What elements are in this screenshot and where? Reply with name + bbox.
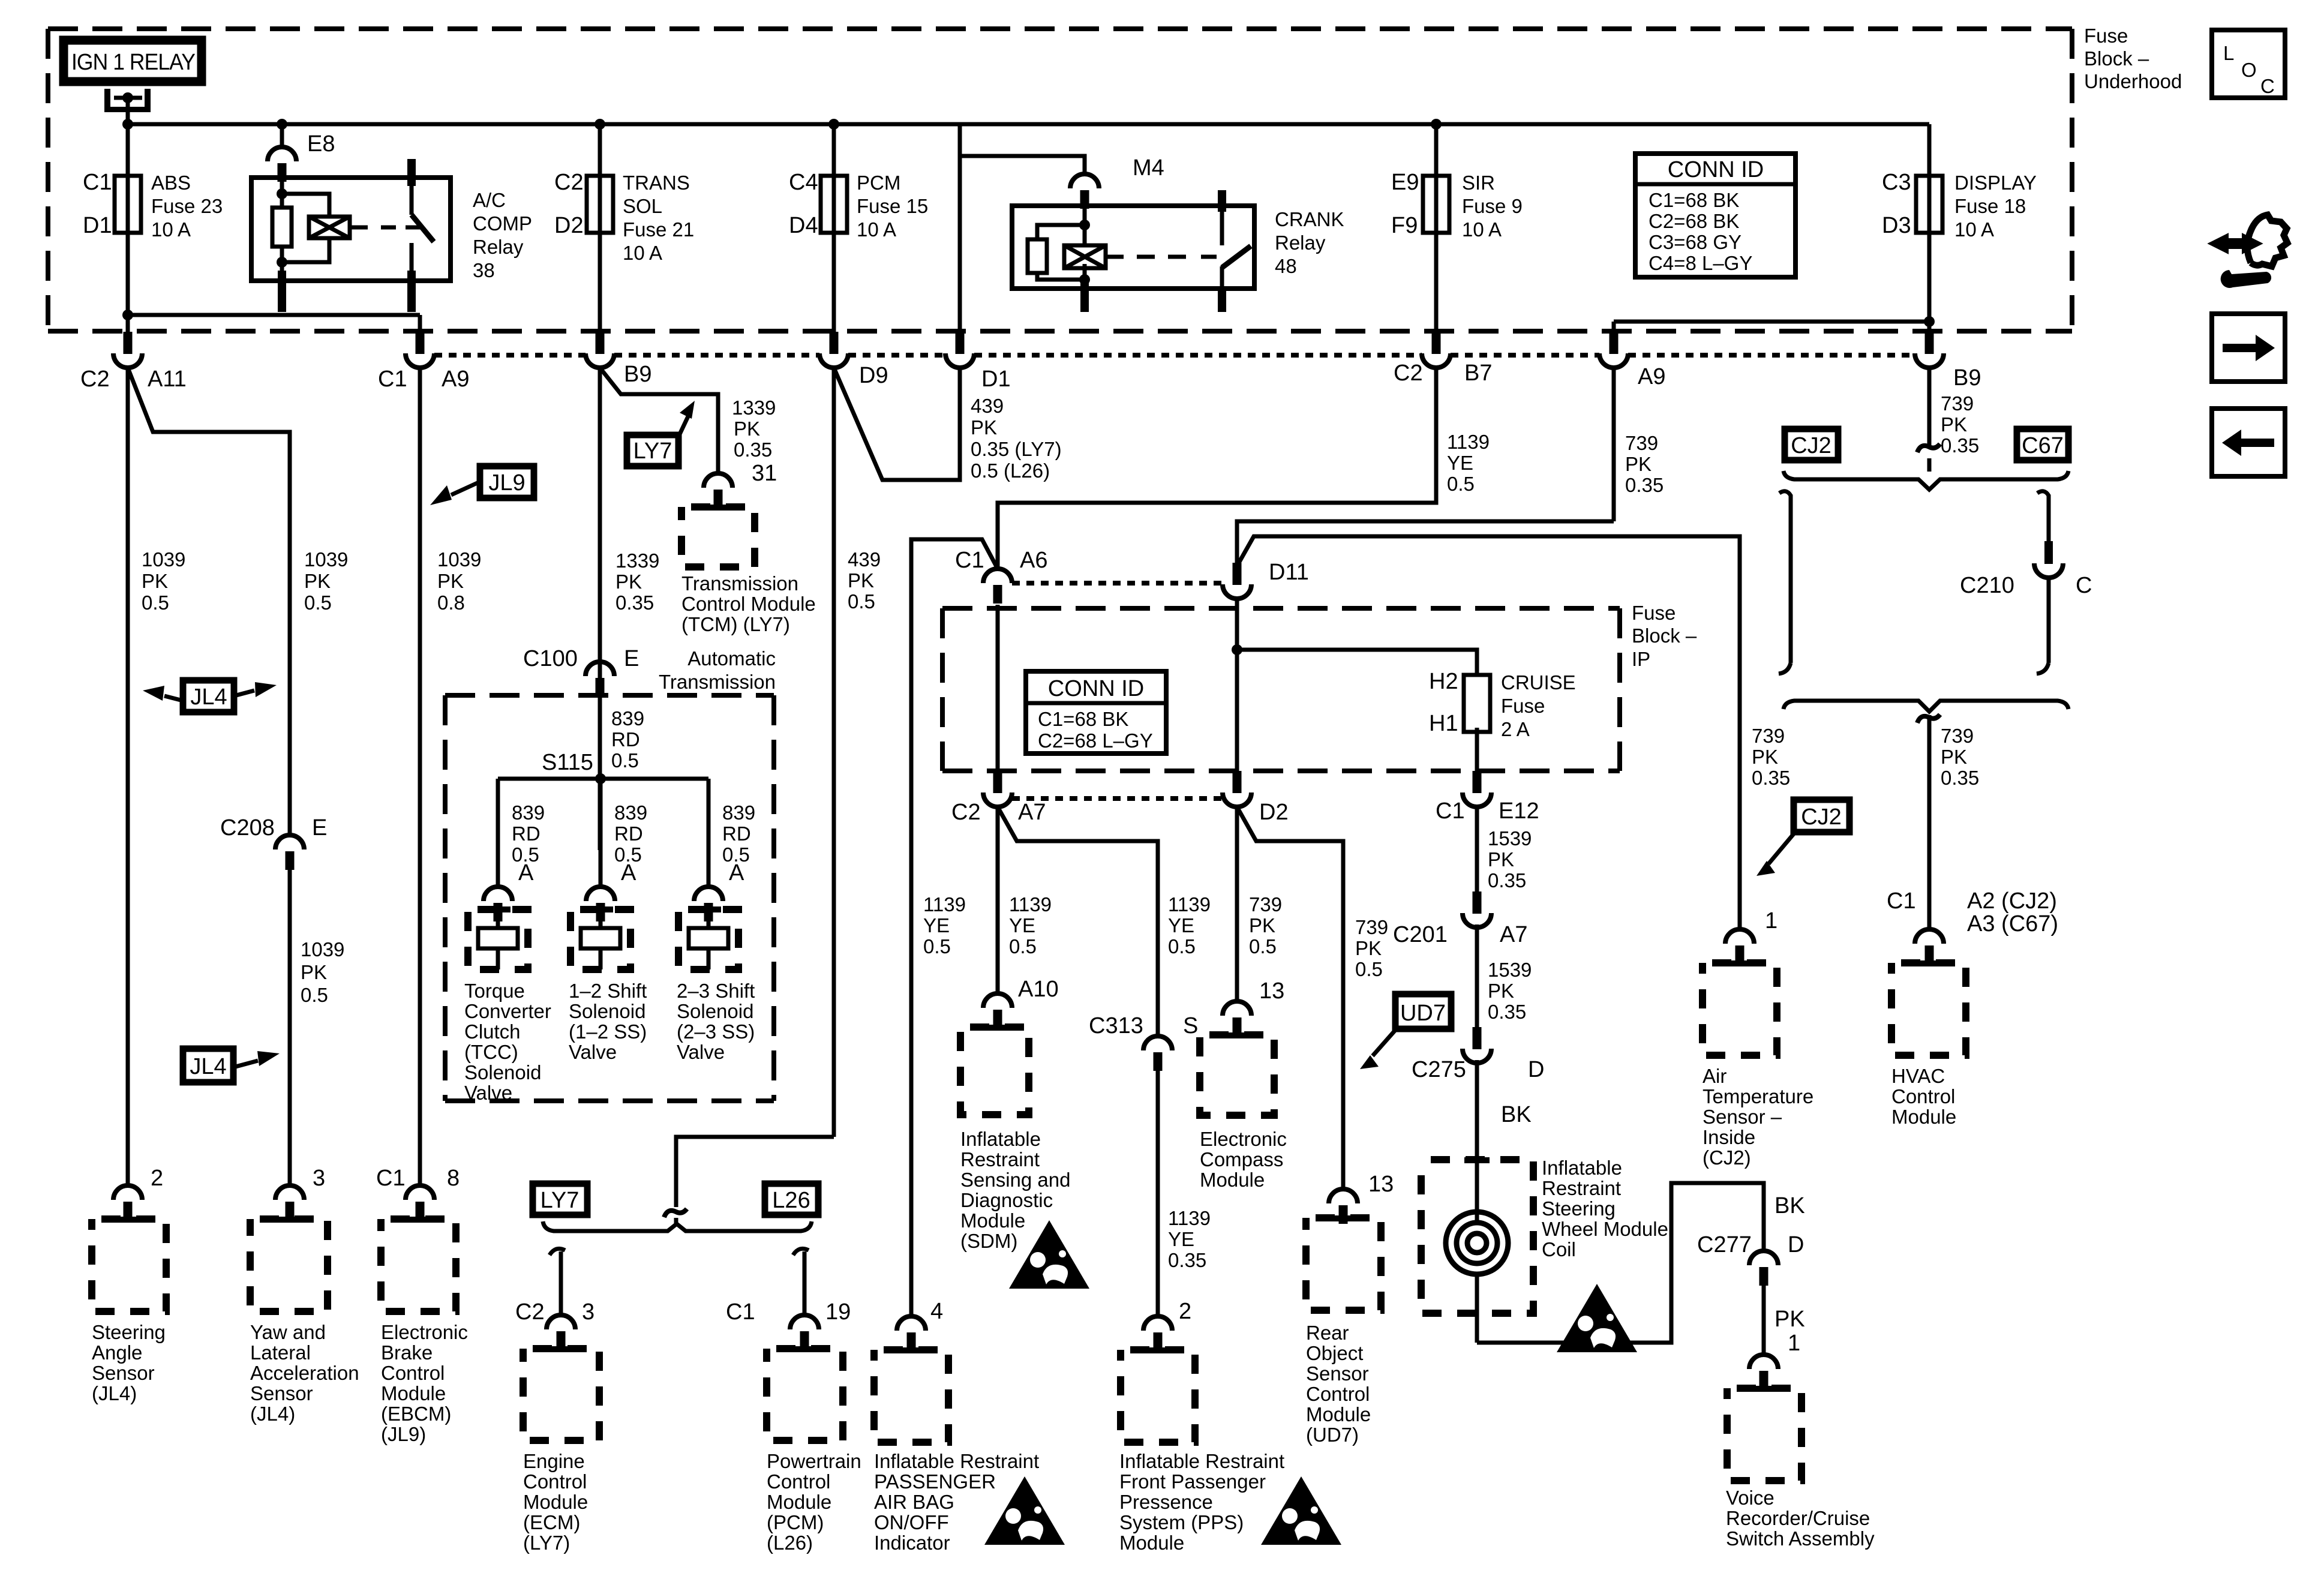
svg-text:C275: C275 — [1412, 1057, 1466, 1082]
svg-text:O: O — [2241, 59, 2257, 81]
svg-text:10 A: 10 A — [151, 218, 191, 241]
svg-text:(CJ2): (CJ2) — [1703, 1146, 1751, 1169]
svg-text:(SDM): (SDM) — [960, 1230, 1017, 1252]
svg-text:0.35 (LY7): 0.35 (LY7) — [971, 438, 1062, 460]
svg-text:Recorder/Cruise: Recorder/Cruise — [1726, 1507, 1870, 1529]
svg-text:PK: PK — [1625, 453, 1652, 475]
svg-text:PASSENGER: PASSENGER — [874, 1470, 996, 1493]
svg-text:LY7: LY7 — [633, 439, 672, 464]
svg-text:Module: Module — [767, 1491, 831, 1513]
svg-text:TRANS: TRANS — [623, 172, 690, 194]
svg-text:48: 48 — [1275, 255, 1297, 277]
svg-text:L: L — [2223, 42, 2234, 64]
svg-text:CJ2: CJ2 — [1791, 433, 1831, 458]
svg-text:C1=68 BK: C1=68 BK — [1649, 189, 1739, 211]
svg-text:Brake: Brake — [381, 1341, 433, 1364]
svg-text:C1: C1 — [376, 1166, 406, 1191]
svg-text:1: 1 — [1765, 908, 1777, 933]
svg-text:19: 19 — [825, 1299, 851, 1325]
svg-text:A7: A7 — [1500, 922, 1527, 947]
svg-text:739: 739 — [1249, 893, 1282, 915]
svg-text:C2: C2 — [1394, 361, 1423, 386]
svg-text:BK: BK — [1774, 1193, 1805, 1218]
svg-text:PK: PK — [615, 571, 642, 593]
svg-text:839: 839 — [614, 801, 647, 824]
svg-text:Solenoid: Solenoid — [569, 1000, 645, 1022]
svg-text:0.5: 0.5 — [1447, 473, 1475, 495]
svg-text:PK: PK — [1488, 980, 1514, 1002]
svg-text:A9: A9 — [442, 367, 469, 392]
svg-text:PK: PK — [1941, 746, 1967, 768]
svg-text:Sensor: Sensor — [1306, 1362, 1369, 1385]
svg-text:C1=68 BK: C1=68 BK — [1038, 708, 1128, 730]
svg-text:C1: C1 — [378, 367, 407, 392]
svg-text:2 A: 2 A — [1501, 718, 1530, 740]
svg-text:Fuse 18: Fuse 18 — [1954, 195, 2026, 217]
svg-text:1039: 1039 — [142, 548, 185, 571]
svg-text:Sensor: Sensor — [92, 1362, 155, 1384]
svg-text:Electronic: Electronic — [381, 1321, 468, 1343]
svg-text:AIR BAG: AIR BAG — [874, 1491, 954, 1513]
svg-text:0.8: 0.8 — [437, 592, 465, 614]
svg-text:PK: PK — [1355, 937, 1382, 959]
svg-text:E: E — [312, 815, 327, 840]
svg-text:1339: 1339 — [732, 397, 776, 419]
svg-text:Torque: Torque — [464, 980, 525, 1002]
svg-text:C1: C1 — [83, 170, 112, 195]
svg-text:D2: D2 — [554, 213, 584, 238]
svg-text:1139: 1139 — [1009, 893, 1052, 915]
svg-text:Sensing and: Sensing and — [960, 1169, 1070, 1191]
svg-text:0.35: 0.35 — [1625, 474, 1664, 496]
svg-text:CRUISE: CRUISE — [1501, 671, 1576, 694]
svg-text:Block –: Block – — [1632, 625, 1697, 647]
svg-text:YE: YE — [1168, 1228, 1194, 1250]
svg-text:L26: L26 — [772, 1188, 810, 1213]
svg-text:PK: PK — [971, 416, 997, 439]
svg-text:D: D — [1528, 1057, 1544, 1082]
svg-text:C1: C1 — [1887, 888, 1916, 914]
svg-text:Sensor –: Sensor – — [1703, 1106, 1782, 1128]
svg-text:E8: E8 — [307, 131, 335, 157]
svg-text:0.5: 0.5 — [848, 590, 875, 613]
svg-text:Module: Module — [1306, 1403, 1371, 1425]
svg-text:1139: 1139 — [1168, 1207, 1211, 1229]
svg-text:C3=68 GY: C3=68 GY — [1649, 231, 1742, 253]
svg-text:13: 13 — [1368, 1172, 1394, 1197]
svg-text:Fuse: Fuse — [1501, 695, 1545, 717]
svg-text:439: 439 — [848, 548, 881, 571]
svg-text:Object: Object — [1306, 1342, 1363, 1364]
svg-text:Fuse: Fuse — [1632, 602, 1676, 624]
svg-text:ABS: ABS — [151, 172, 191, 194]
svg-text:Control Module: Control Module — [681, 593, 816, 615]
svg-text:Transmission: Transmission — [681, 572, 798, 595]
svg-text:38: 38 — [473, 259, 495, 281]
svg-text:0.35: 0.35 — [1941, 767, 1979, 789]
svg-text:Relay: Relay — [473, 236, 524, 258]
svg-text:839: 839 — [512, 801, 545, 824]
svg-text:Fuse 21: Fuse 21 — [623, 218, 694, 241]
svg-text:Air: Air — [1703, 1065, 1727, 1087]
svg-text:10 A: 10 A — [1954, 218, 1994, 241]
svg-text:RD: RD — [614, 822, 643, 845]
svg-text:4: 4 — [930, 1299, 943, 1324]
svg-text:H2: H2 — [1429, 669, 1458, 694]
svg-text:Restraint: Restraint — [1542, 1177, 1621, 1199]
svg-text:1139: 1139 — [923, 893, 966, 915]
svg-text:0.35: 0.35 — [1752, 767, 1790, 789]
svg-text:839: 839 — [722, 801, 755, 824]
svg-text:(EBCM): (EBCM) — [381, 1403, 451, 1425]
svg-text:1: 1 — [1788, 1331, 1800, 1356]
svg-text:A: A — [518, 860, 534, 885]
svg-text:Control: Control — [523, 1470, 587, 1493]
svg-text:C210: C210 — [1960, 573, 2014, 598]
svg-text:Transmission: Transmission — [659, 671, 776, 693]
svg-text:A: A — [729, 860, 744, 885]
svg-text:Voice: Voice — [1726, 1487, 1774, 1509]
svg-text:C2: C2 — [515, 1299, 545, 1325]
svg-text:F9: F9 — [1391, 213, 1418, 238]
svg-text:3: 3 — [313, 1166, 325, 1191]
svg-text:(JL4): (JL4) — [250, 1403, 295, 1425]
svg-text:Wheel Module: Wheel Module — [1542, 1218, 1668, 1240]
svg-text:D4: D4 — [789, 213, 818, 238]
svg-text:(LY7): (LY7) — [523, 1532, 570, 1554]
svg-text:PK: PK — [1752, 746, 1778, 768]
svg-text:D1: D1 — [83, 213, 112, 238]
svg-text:0.35: 0.35 — [734, 439, 772, 461]
svg-text:A2 (CJ2): A2 (CJ2) — [1967, 888, 2057, 914]
svg-text:10 A: 10 A — [623, 242, 662, 264]
svg-text:UD7: UD7 — [1400, 1001, 1446, 1026]
svg-text:Valve: Valve — [464, 1082, 512, 1104]
svg-text:HVAC: HVAC — [1891, 1065, 1945, 1087]
svg-text:Module: Module — [523, 1491, 588, 1513]
svg-text:739: 739 — [1941, 392, 1974, 415]
svg-text:C2=68 BK: C2=68 BK — [1649, 210, 1739, 232]
svg-text:BK: BK — [1501, 1102, 1532, 1127]
svg-text:(ECM): (ECM) — [523, 1511, 580, 1533]
svg-text:Angle: Angle — [92, 1341, 142, 1364]
svg-text:839: 839 — [611, 707, 644, 730]
svg-text:DISPLAY: DISPLAY — [1954, 172, 2037, 194]
svg-text:1139: 1139 — [1168, 893, 1211, 915]
svg-text:Switch Assembly: Switch Assembly — [1726, 1527, 1875, 1550]
svg-text:Inside: Inside — [1703, 1126, 1755, 1148]
svg-text:A9: A9 — [1638, 364, 1665, 389]
svg-text:D11: D11 — [1269, 560, 1309, 585]
svg-text:D2: D2 — [1259, 800, 1289, 825]
svg-text:Pressence: Pressence — [1119, 1491, 1213, 1513]
svg-text:C100: C100 — [523, 646, 578, 671]
svg-text:PK: PK — [1941, 413, 1967, 436]
svg-text:SOL: SOL — [623, 195, 662, 217]
svg-text:0.5: 0.5 — [611, 749, 639, 772]
svg-text:C1: C1 — [726, 1299, 755, 1325]
svg-text:Inflatable: Inflatable — [960, 1128, 1041, 1150]
svg-text:PK: PK — [142, 570, 168, 592]
svg-text:Fuse 23: Fuse 23 — [151, 195, 223, 217]
svg-text:C4: C4 — [789, 170, 818, 195]
svg-text:A11: A11 — [148, 367, 187, 392]
svg-text:739: 739 — [1941, 725, 1974, 747]
svg-text:0.35: 0.35 — [615, 592, 654, 614]
svg-text:YE: YE — [1168, 914, 1194, 936]
svg-text:C2=68 L–GY: C2=68 L–GY — [1038, 730, 1153, 752]
svg-text:PK: PK — [1774, 1307, 1805, 1332]
svg-text:A/C: A/C — [473, 189, 506, 211]
svg-text:Electronic: Electronic — [1200, 1128, 1287, 1150]
svg-text:Solenoid: Solenoid — [677, 1000, 753, 1022]
svg-text:(TCC): (TCC) — [464, 1041, 518, 1063]
svg-text:Block –: Block – — [2084, 47, 2149, 70]
svg-text:Control: Control — [767, 1470, 830, 1493]
svg-text:C208: C208 — [220, 815, 275, 840]
svg-text:Steering: Steering — [1542, 1197, 1616, 1220]
svg-text:B9: B9 — [1953, 365, 1981, 391]
svg-text:2: 2 — [151, 1166, 163, 1191]
svg-text:PK: PK — [734, 418, 760, 440]
svg-text:RD: RD — [512, 822, 541, 845]
svg-text:B7: B7 — [1464, 361, 1492, 386]
svg-text:Diagnostic: Diagnostic — [960, 1189, 1053, 1211]
svg-text:Relay: Relay — [1275, 232, 1326, 254]
svg-text:0.5: 0.5 — [1168, 935, 1196, 957]
svg-text:E9: E9 — [1391, 170, 1419, 195]
svg-text:Fuse 15: Fuse 15 — [857, 195, 928, 217]
svg-text:Compass: Compass — [1200, 1148, 1283, 1170]
svg-text:Coil: Coil — [1542, 1238, 1576, 1260]
svg-text:0.35: 0.35 — [1941, 434, 1979, 457]
svg-text:1039: 1039 — [304, 548, 348, 571]
svg-text:31: 31 — [752, 461, 777, 486]
svg-text:1539: 1539 — [1488, 959, 1532, 981]
svg-text:0.5: 0.5 — [1249, 935, 1277, 957]
svg-text:Inflatable: Inflatable — [1542, 1157, 1622, 1179]
svg-text:PK: PK — [1249, 914, 1275, 936]
svg-text:0.5: 0.5 — [1355, 958, 1383, 980]
svg-text:2: 2 — [1179, 1299, 1191, 1324]
svg-text:C: C — [2260, 75, 2275, 97]
svg-text:Valve: Valve — [677, 1041, 725, 1063]
svg-text:13: 13 — [1259, 978, 1284, 1004]
svg-text:ON/OFF: ON/OFF — [874, 1511, 949, 1533]
svg-text:C67: C67 — [2022, 433, 2064, 458]
svg-text:0.5: 0.5 — [301, 984, 328, 1006]
svg-text:IP: IP — [1632, 648, 1650, 670]
svg-text:PK: PK — [848, 569, 874, 592]
svg-text:(L26): (L26) — [767, 1532, 813, 1554]
svg-text:1039: 1039 — [437, 548, 481, 571]
svg-text:(JL9): (JL9) — [381, 1423, 426, 1445]
svg-text:CONN ID: CONN ID — [1668, 157, 1764, 182]
svg-text:10 A: 10 A — [1462, 218, 1502, 241]
svg-text:LY7: LY7 — [541, 1188, 580, 1213]
svg-text:SIR: SIR — [1462, 172, 1495, 194]
svg-text:Valve: Valve — [569, 1041, 617, 1063]
svg-text:C313: C313 — [1089, 1013, 1143, 1038]
svg-text:439: 439 — [971, 395, 1004, 417]
svg-text:A10: A10 — [1018, 977, 1059, 1002]
svg-text:C2: C2 — [951, 800, 981, 825]
svg-text:Yaw and: Yaw and — [250, 1321, 326, 1343]
svg-text:0.35: 0.35 — [1488, 869, 1526, 891]
svg-text:Front Passenger: Front Passenger — [1119, 1470, 1266, 1493]
svg-text:(PCM): (PCM) — [767, 1511, 824, 1533]
svg-text:739: 739 — [1625, 432, 1658, 454]
svg-text:D: D — [1788, 1232, 1804, 1257]
svg-text:Control: Control — [1306, 1383, 1370, 1405]
svg-text:Temperature: Temperature — [1703, 1085, 1813, 1107]
svg-text:M4: M4 — [1133, 155, 1164, 181]
svg-text:PK: PK — [301, 961, 327, 983]
svg-text:YE: YE — [1009, 914, 1035, 936]
svg-text:CRANK: CRANK — [1275, 208, 1344, 230]
svg-text:Solenoid: Solenoid — [464, 1061, 541, 1083]
svg-text:0.5: 0.5 — [923, 935, 951, 957]
svg-text:B9: B9 — [624, 362, 651, 387]
svg-text:Module: Module — [1200, 1169, 1265, 1191]
svg-text:JL4: JL4 — [190, 685, 227, 710]
svg-text:S: S — [1183, 1013, 1198, 1038]
svg-text:1–2 Shift: 1–2 Shift — [569, 980, 647, 1002]
svg-text:JL9: JL9 — [488, 470, 525, 496]
svg-text:0.35: 0.35 — [1168, 1249, 1206, 1271]
svg-text:D3: D3 — [1882, 213, 1911, 238]
svg-text:A: A — [621, 860, 636, 885]
svg-text:YE: YE — [1447, 452, 1473, 474]
svg-text:Underhood: Underhood — [2084, 70, 2182, 92]
svg-text:RD: RD — [722, 822, 751, 845]
svg-text:0.5 (L26): 0.5 (L26) — [971, 460, 1050, 482]
svg-text:RD: RD — [611, 728, 640, 751]
svg-text:0.5: 0.5 — [1009, 935, 1037, 957]
svg-text:C4=8 L–GY: C4=8 L–GY — [1649, 252, 1752, 274]
svg-text:D9: D9 — [859, 363, 888, 388]
svg-text:Powertrain: Powertrain — [767, 1450, 861, 1472]
svg-text:1039: 1039 — [301, 938, 344, 960]
svg-text:C2: C2 — [80, 367, 110, 392]
svg-text:D1: D1 — [981, 367, 1011, 392]
svg-text:H1: H1 — [1429, 711, 1458, 736]
svg-text:JL4: JL4 — [190, 1054, 226, 1079]
svg-text:System (PPS): System (PPS) — [1119, 1511, 1244, 1533]
svg-text:Fuse 9: Fuse 9 — [1462, 195, 1523, 217]
svg-text:IGN 1 RELAY: IGN 1 RELAY — [71, 50, 196, 75]
svg-text:Rear: Rear — [1306, 1322, 1349, 1344]
svg-text:PCM: PCM — [857, 172, 900, 194]
svg-text:C: C — [2076, 573, 2092, 598]
svg-text:S115: S115 — [542, 750, 593, 775]
svg-text:Module: Module — [960, 1209, 1025, 1232]
svg-text:A3 (C67): A3 (C67) — [1967, 911, 2058, 936]
svg-text:Converter: Converter — [464, 1000, 551, 1022]
svg-text:CJ2: CJ2 — [1801, 804, 1842, 830]
svg-text:Fuse: Fuse — [2084, 25, 2128, 47]
svg-text:Indicator: Indicator — [874, 1532, 950, 1554]
svg-text:C3: C3 — [1882, 170, 1911, 195]
svg-text:1539: 1539 — [1488, 827, 1532, 849]
svg-text:CONN ID: CONN ID — [1048, 676, 1144, 701]
svg-text:1139: 1139 — [1447, 431, 1490, 453]
svg-text:Inflatable Restraint: Inflatable Restraint — [874, 1450, 1039, 1472]
svg-text:PK: PK — [1488, 848, 1514, 870]
svg-text:10 A: 10 A — [857, 218, 896, 241]
svg-text:Engine: Engine — [523, 1450, 585, 1472]
svg-text:C201: C201 — [1393, 922, 1448, 947]
svg-text:(UD7): (UD7) — [1306, 1424, 1359, 1446]
svg-text:0.35: 0.35 — [1488, 1001, 1526, 1023]
svg-text:Sensor: Sensor — [250, 1382, 313, 1404]
svg-text:C277: C277 — [1697, 1232, 1752, 1257]
svg-text:A7: A7 — [1018, 800, 1046, 825]
svg-text:(JL4): (JL4) — [92, 1382, 137, 1404]
svg-text:Module: Module — [381, 1382, 446, 1404]
svg-text:Clutch: Clutch — [464, 1020, 521, 1043]
svg-text:0.5: 0.5 — [142, 592, 169, 614]
svg-text:PK: PK — [437, 570, 464, 592]
svg-text:YE: YE — [923, 914, 950, 936]
svg-text:(2–3 SS): (2–3 SS) — [677, 1020, 755, 1043]
svg-text:739: 739 — [1752, 725, 1785, 747]
svg-text:Control: Control — [1891, 1085, 1955, 1107]
svg-text:E12: E12 — [1499, 798, 1539, 824]
svg-text:Steering: Steering — [92, 1321, 166, 1343]
svg-text:(TCM) (LY7): (TCM) (LY7) — [681, 613, 790, 635]
svg-text:C1: C1 — [955, 548, 984, 573]
svg-text:2–3 Shift: 2–3 Shift — [677, 980, 755, 1002]
svg-text:1339: 1339 — [615, 550, 659, 572]
svg-text:E: E — [624, 646, 639, 671]
svg-text:8: 8 — [447, 1166, 460, 1191]
svg-text:Control: Control — [381, 1362, 445, 1384]
svg-text:739: 739 — [1355, 916, 1388, 938]
svg-text:COMP: COMP — [473, 212, 532, 235]
svg-text:0.5: 0.5 — [304, 592, 332, 614]
svg-text:3: 3 — [582, 1299, 594, 1325]
svg-text:Automatic: Automatic — [687, 647, 776, 670]
svg-text:Inflatable Restraint: Inflatable Restraint — [1119, 1450, 1284, 1472]
svg-text:PK: PK — [304, 570, 331, 592]
svg-text:Restraint: Restraint — [960, 1148, 1040, 1170]
svg-text:Module: Module — [1891, 1106, 1956, 1128]
svg-text:Acceleration: Acceleration — [250, 1362, 359, 1384]
svg-text:A6: A6 — [1020, 548, 1047, 573]
svg-text:Module: Module — [1119, 1532, 1184, 1554]
svg-text:Lateral: Lateral — [250, 1341, 311, 1364]
svg-text:C2: C2 — [554, 170, 584, 195]
svg-text:C1: C1 — [1436, 798, 1465, 824]
svg-text:(1–2 SS): (1–2 SS) — [569, 1020, 647, 1043]
